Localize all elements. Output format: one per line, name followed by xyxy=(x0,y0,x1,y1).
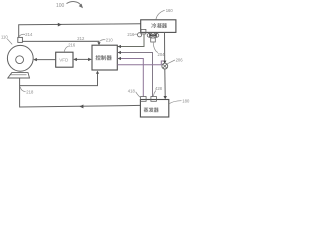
svg-text:206: 206 xyxy=(176,57,184,62)
svg-text:210: 210 xyxy=(106,37,114,42)
evaporator sensor A xyxy=(141,97,147,102)
condenser box xyxy=(141,20,176,33)
arrowhead into motor xyxy=(33,58,37,61)
fan motor box xyxy=(151,38,156,42)
controller line to condenser sensor xyxy=(117,34,144,47)
svg-text:216: 216 xyxy=(127,32,135,37)
condenser text 冷凝器 (as paths) xyxy=(151,23,167,28)
svg-text:428: 428 xyxy=(155,86,163,91)
leader 180 xyxy=(169,101,182,104)
evaporator sensor B xyxy=(151,97,157,102)
motor shaft circle xyxy=(16,56,24,64)
controller box xyxy=(92,45,117,70)
leader 218 xyxy=(20,87,25,92)
leader 160 xyxy=(156,10,165,19)
leader 210 xyxy=(100,40,105,41)
valve to evaporator pipe xyxy=(164,69,166,97)
leader 206 xyxy=(167,60,175,64)
svg-text:110: 110 xyxy=(1,34,8,39)
leader 418 xyxy=(136,92,141,98)
arrowhead into evaporator top xyxy=(164,96,167,99)
leader 428 xyxy=(153,91,156,97)
svg-text:218: 218 xyxy=(26,90,34,95)
condenser sensor circle xyxy=(138,33,142,37)
arrowhead into controller left xyxy=(88,58,92,61)
svg-text:VFD: VFD xyxy=(59,58,69,63)
wire motor terminal to controller top xyxy=(22,41,99,44)
arrowhead into controller (line 1) xyxy=(118,45,122,48)
svg-text:214: 214 xyxy=(25,32,33,37)
controller line to evaporator sensor A xyxy=(117,59,143,97)
flow arrow on suction pipe xyxy=(80,105,84,109)
arrowhead into VFD xyxy=(73,58,77,61)
controller line to evaporator sensor B xyxy=(117,53,152,97)
condenser sensor square xyxy=(141,29,146,34)
controller text 控制器 (as paths) xyxy=(96,55,112,60)
top discharge pipe to condenser xyxy=(19,24,141,37)
svg-text:212: 212 xyxy=(77,36,85,41)
evaporator text 蒸发器 (as paths) xyxy=(144,107,159,112)
svg-text:180: 180 xyxy=(182,99,190,104)
leader 216 xyxy=(64,46,68,52)
arrowhead into controller (line 3) xyxy=(118,57,122,60)
leader arrow for 100 xyxy=(67,2,84,9)
liquid line condenser to valve xyxy=(164,32,166,63)
wire VFD to motor xyxy=(35,59,56,61)
svg-text:100: 100 xyxy=(56,3,65,9)
svg-text:204: 204 xyxy=(158,52,166,57)
arrowhead into valve top xyxy=(163,61,166,64)
arrowhead into controller top xyxy=(97,42,100,45)
leader 214 xyxy=(19,34,25,36)
leader 110 xyxy=(7,39,12,45)
svg-text:418: 418 xyxy=(128,89,136,94)
controller line to expansion valve xyxy=(117,61,163,65)
VFD box xyxy=(56,52,73,67)
terminal box on motor xyxy=(18,37,23,42)
arrowhead into controller (line 2) xyxy=(118,51,122,54)
motor base xyxy=(8,73,30,78)
svg-text:216: 216 xyxy=(68,42,76,47)
wire VFD to controller (bidirectional) xyxy=(75,58,91,60)
expansion valve (circle with X) xyxy=(162,63,168,69)
svg-text:160: 160 xyxy=(166,8,174,13)
condenser fan xyxy=(147,33,159,37)
arrowhead into controller bottom xyxy=(96,71,99,74)
suction pipe evaporator to motor xyxy=(20,86,141,107)
leader 216 sensor xyxy=(134,33,137,35)
flow arrow on top pipe xyxy=(58,23,62,27)
motor sense wire to controller bottom xyxy=(20,72,98,86)
leader 204 xyxy=(153,42,158,52)
evaporator box xyxy=(140,100,168,118)
motor M (compressor motor) xyxy=(7,45,33,71)
